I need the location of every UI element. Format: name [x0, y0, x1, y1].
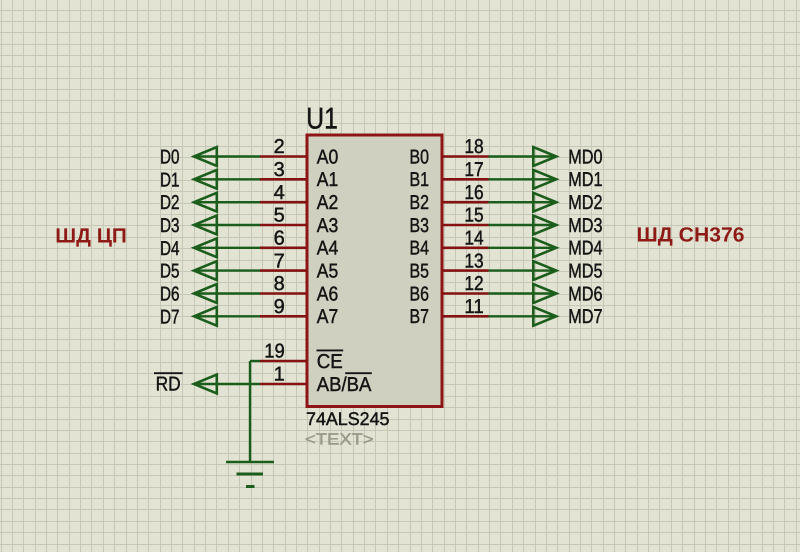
svg-text:3: 3	[274, 159, 285, 181]
svg-text:A2: A2	[317, 192, 339, 214]
svg-text:A6: A6	[317, 283, 339, 305]
svg-text:D4: D4	[160, 238, 180, 260]
svg-text:CE: CE	[317, 351, 343, 373]
svg-text:D3: D3	[160, 215, 180, 237]
svg-text:MD5: MD5	[568, 261, 602, 283]
svg-text:7: 7	[274, 250, 285, 272]
svg-text:MD4: MD4	[568, 238, 602, 260]
svg-text:A1: A1	[317, 169, 339, 191]
svg-text:RD: RD	[156, 374, 181, 396]
svg-text:12: 12	[464, 273, 483, 295]
svg-text:B5: B5	[410, 261, 430, 283]
svg-text:<TEXT>: <TEXT>	[305, 430, 374, 448]
svg-text:A4: A4	[317, 238, 339, 260]
svg-text:MD6: MD6	[568, 283, 602, 305]
svg-text:74ALS245: 74ALS245	[306, 408, 390, 429]
svg-text:A3: A3	[317, 215, 339, 237]
svg-text:17: 17	[464, 159, 483, 181]
svg-text:9: 9	[274, 296, 285, 318]
svg-text:4: 4	[274, 182, 285, 204]
svg-text:D6: D6	[160, 284, 180, 306]
svg-text:B0: B0	[410, 146, 430, 168]
svg-text:18: 18	[464, 136, 483, 158]
svg-text:MD1: MD1	[568, 169, 602, 191]
svg-text:D7: D7	[160, 306, 180, 328]
svg-text:6: 6	[274, 228, 285, 250]
svg-text:14: 14	[464, 228, 483, 250]
svg-text:11: 11	[464, 296, 483, 318]
svg-text:MD0: MD0	[568, 146, 602, 168]
svg-text:A7: A7	[317, 306, 339, 328]
svg-text:AB/BA: AB/BA	[317, 374, 372, 396]
svg-text:19: 19	[264, 341, 285, 363]
svg-text:ШД ЦП: ШД ЦП	[55, 225, 127, 248]
svg-text:B1: B1	[410, 169, 430, 191]
svg-text:D2: D2	[160, 192, 180, 214]
svg-text:8: 8	[274, 273, 285, 295]
svg-text:B2: B2	[410, 192, 430, 214]
svg-text:A0: A0	[317, 146, 339, 168]
svg-text:B4: B4	[410, 238, 430, 260]
svg-text:B6: B6	[410, 283, 430, 305]
svg-text:U1: U1	[306, 103, 338, 136]
svg-text:MD2: MD2	[568, 192, 602, 214]
svg-text:B3: B3	[410, 215, 430, 237]
svg-text:D5: D5	[160, 261, 180, 283]
svg-text:MD7: MD7	[568, 306, 602, 328]
svg-text:5: 5	[274, 205, 285, 227]
svg-text:D0: D0	[160, 147, 180, 169]
svg-text:B7: B7	[410, 306, 430, 328]
svg-text:15: 15	[464, 205, 483, 227]
svg-text:A5: A5	[317, 261, 339, 283]
svg-text:ШД CH376: ШД CH376	[637, 223, 745, 246]
svg-text:MD3: MD3	[568, 215, 602, 237]
svg-text:1: 1	[274, 364, 285, 386]
svg-text:16: 16	[464, 182, 483, 204]
svg-text:2: 2	[274, 136, 285, 158]
svg-text:D1: D1	[160, 169, 180, 191]
svg-text:13: 13	[464, 250, 483, 272]
